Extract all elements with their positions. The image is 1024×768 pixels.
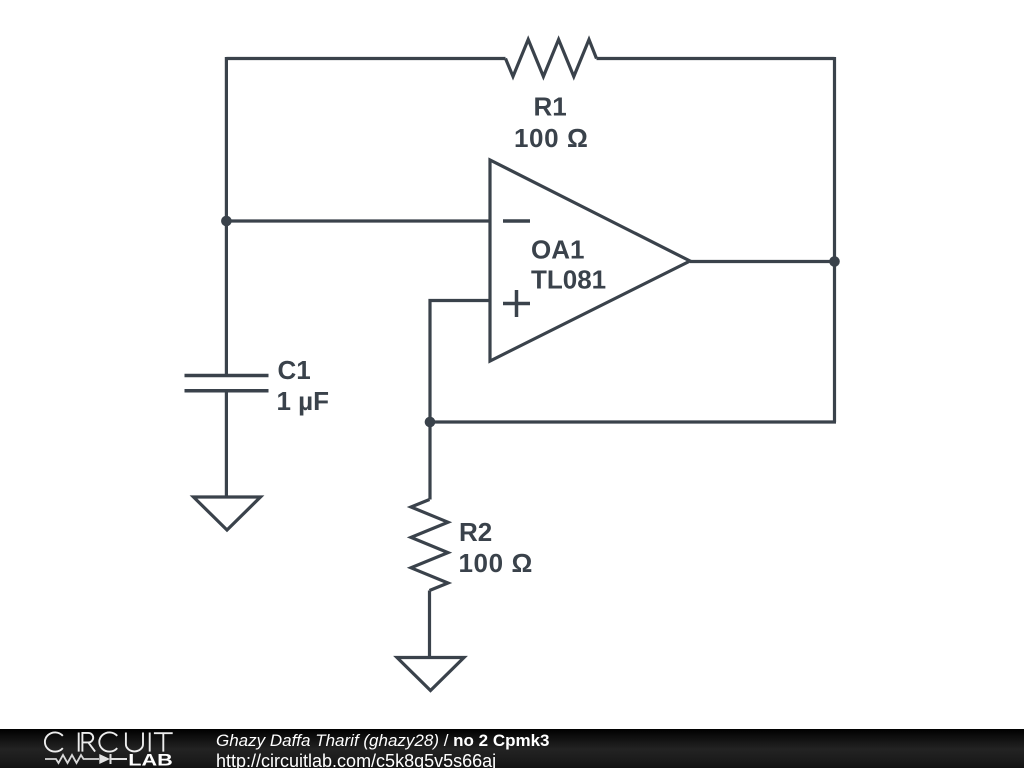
wire right vertical feedback <box>833 57 836 422</box>
wire R2 to ground <box>428 591 431 658</box>
svg-text:R1: R1 <box>534 92 567 122</box>
footer credit line 1 author / title <box>216 732 550 749</box>
op-amp OA1 plus input symbol <box>503 290 530 317</box>
capacitor C1 bottom plate <box>185 389 269 393</box>
wire bottom node to R2 <box>428 422 431 500</box>
svg-text:TL081: TL081 <box>531 265 606 295</box>
wire capacitor C1 to ground <box>225 391 228 497</box>
svg-text:R2: R2 <box>459 517 492 547</box>
wire op-amp output to right vertical <box>690 260 835 263</box>
wire non-inverting input from op-amp to left then down to bottom node <box>430 301 490 423</box>
svg-text:1 µF: 1 µF <box>277 386 330 416</box>
capacitor C1 top plate <box>185 374 269 378</box>
wire from R1 to top-right corner <box>597 57 835 60</box>
resistor R1 <box>506 40 597 77</box>
CircuitLab logo resistor squiggle <box>45 755 99 763</box>
wire inverting input from node to op-amp <box>226 219 490 222</box>
svg-text:LAB: LAB <box>128 750 173 768</box>
svg-text:C1: C1 <box>278 355 311 385</box>
wire left vertical from top corner to capacitor C1 <box>225 57 228 376</box>
svg-text:100 Ω: 100 Ω <box>459 548 533 578</box>
wire top-left horizontal from left vertical to R1 <box>226 57 505 60</box>
resistor R2 <box>411 500 448 591</box>
ground under R2 <box>397 658 464 691</box>
CircuitLab logo diode <box>99 754 110 764</box>
wire bottom horizontal from node to right vertical <box>430 420 836 423</box>
ground under C1 <box>194 497 261 530</box>
svg-text:OA1: OA1 <box>531 234 584 264</box>
node junction inverting input <box>221 216 232 227</box>
op-amp OA1 triangle <box>490 160 690 361</box>
CircuitLab logo wordmark CIRCUIT (thin stroked letters, y relative to footer top 729) <box>45 732 173 751</box>
op-amp OA1 minus input symbol <box>503 219 530 223</box>
node junction non-inverting feedback <box>425 417 436 428</box>
footer bar <box>0 729 1024 768</box>
svg-text:100 Ω: 100 Ω <box>514 123 588 153</box>
footer credit line 2 url <box>216 753 496 768</box>
node junction op-amp output <box>829 256 840 267</box>
